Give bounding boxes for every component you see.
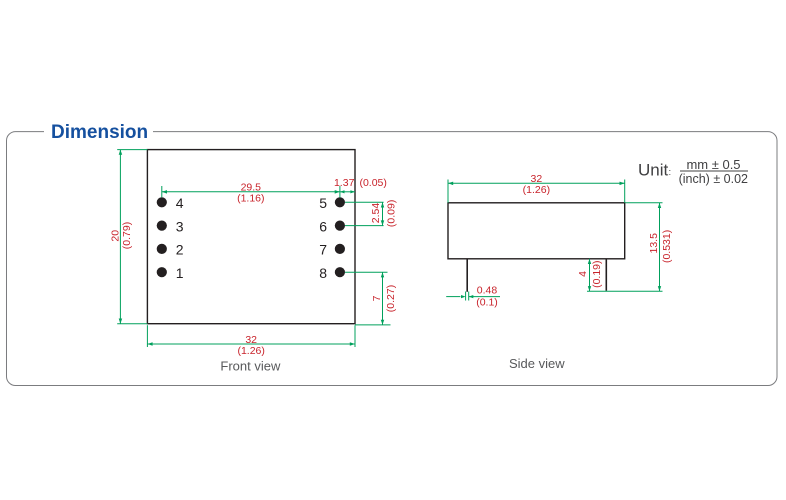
svg-text:1: 1: [176, 265, 184, 281]
svg-text:4: 4: [577, 271, 589, 277]
svg-text:1.37: 1.37: [334, 177, 355, 189]
svg-text:4: 4: [176, 195, 184, 211]
svg-text:13.5: 13.5: [648, 233, 660, 254]
unit note fraction bar: [680, 170, 748, 172]
svg-text:8: 8: [319, 265, 327, 281]
svg-text::: :: [669, 167, 672, 178]
svg-text:(0.1): (0.1): [476, 296, 498, 308]
dimension 2.54 (0.09) pin pitch, front view: [345, 202, 384, 225]
svg-text:(1.26): (1.26): [237, 345, 264, 357]
svg-text:7: 7: [371, 295, 383, 301]
dimension 7 (0.27) pin 8 to bottom, front view: [345, 272, 391, 325]
svg-text:29.5: 29.5: [241, 181, 262, 193]
svg-text:(0.19): (0.19): [591, 260, 603, 287]
dimension 13.5 (0.531) height, side view: [587, 203, 663, 291]
svg-text:(0.09): (0.09): [385, 200, 397, 227]
dimension 1.37 (0.05) pin to edge, front view: [340, 190, 355, 193]
pin 8: [335, 267, 345, 277]
dimension 29.5 (1.16) pin span, front view: [162, 186, 340, 198]
svg-text:(0.531): (0.531): [661, 230, 673, 263]
svg-text:3: 3: [176, 218, 184, 234]
svg-text:0.48: 0.48: [477, 284, 498, 296]
pin 5: [335, 197, 345, 207]
dimension 32 (1.26) width, side view: [448, 180, 625, 203]
svg-text:(1.16): (1.16): [237, 193, 264, 205]
svg-text:6: 6: [319, 218, 327, 234]
svg-text:(1.26): (1.26): [523, 184, 550, 196]
panel border: [7, 132, 778, 386]
svg-text:Side view: Side view: [509, 356, 565, 371]
svg-text:2: 2: [176, 242, 184, 258]
pin 2: [157, 244, 167, 254]
svg-text:5: 5: [319, 195, 327, 211]
pin 6: [335, 221, 345, 231]
svg-text:2.54: 2.54: [370, 203, 382, 224]
dimension 32 (1.26) width, front view: [147, 325, 355, 347]
svg-text:Dimension: Dimension: [51, 122, 148, 143]
svg-text:(inch) ± 0.02: (inch) ± 0.02: [679, 172, 748, 186]
svg-text:Unit: Unit: [638, 161, 669, 180]
dimension 0.48 (0.1) pin width, side view: [446, 292, 500, 301]
side view right pin: [605, 259, 607, 291]
side view body outline: [448, 203, 625, 259]
pin 7: [335, 244, 345, 254]
dimension 20 (0.79) height, front view: [117, 150, 147, 324]
svg-text:7: 7: [319, 242, 327, 258]
svg-text:(0.05): (0.05): [359, 177, 386, 189]
svg-text:(0.79): (0.79): [121, 222, 133, 249]
pin 1: [157, 267, 167, 277]
svg-text:20: 20: [110, 230, 122, 242]
svg-text:mm ± 0.5: mm ± 0.5: [686, 157, 740, 172]
pin 4: [157, 197, 167, 207]
pin 3: [157, 221, 167, 231]
title gap mask: [44, 125, 153, 138]
svg-text:Front view: Front view: [220, 359, 281, 374]
side view left pin: [466, 259, 468, 292]
front view body outline: [147, 150, 355, 324]
dimension 4 (0.19) pin length, side view: [588, 259, 591, 292]
svg-text:(0.27): (0.27): [385, 285, 397, 312]
